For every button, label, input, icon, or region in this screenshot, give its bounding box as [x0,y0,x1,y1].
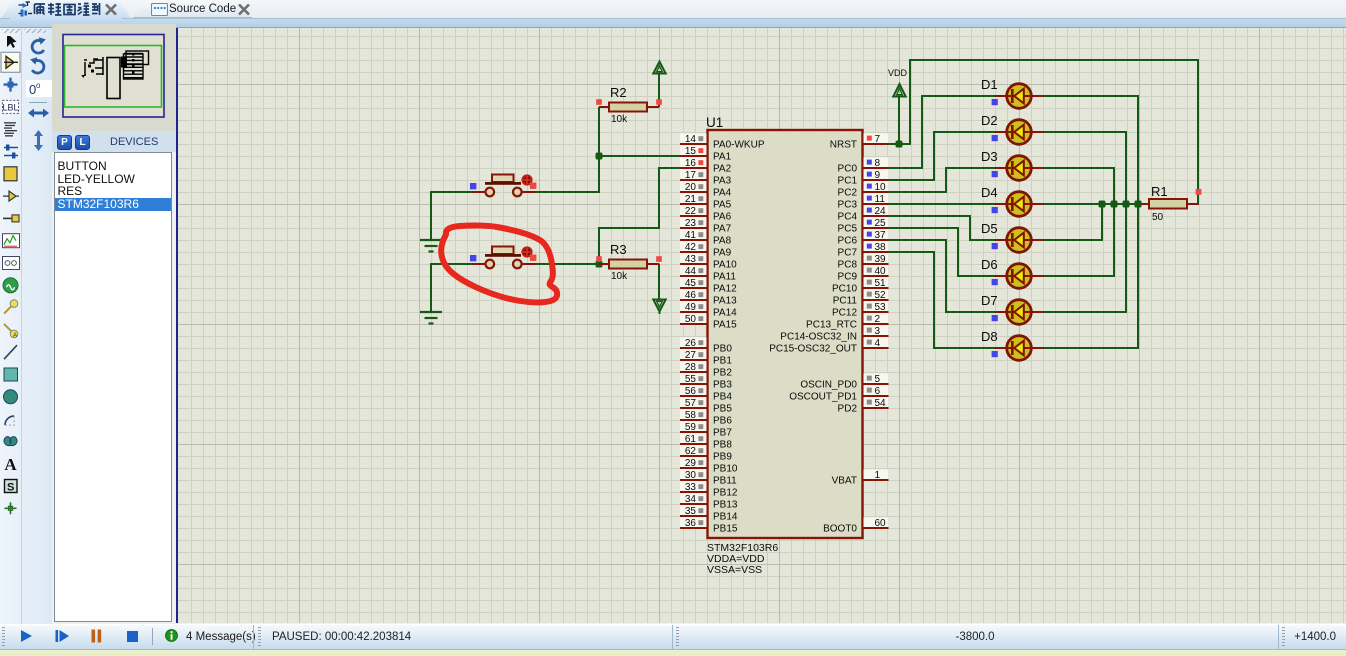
svg-text:PB4: PB4 [713,392,732,403]
svg-text:PC0: PC0 [838,164,858,175]
svg-text:53: 53 [875,302,887,313]
svg-text:PA4: PA4 [713,188,732,199]
svg-text:11: 11 [875,194,886,205]
tab1 close X [104,3,118,16]
svg-text:D4: D4 [981,185,998,200]
pin 21 PA5 [680,193,732,210]
svg-text:58: 58 [685,410,697,421]
tab2 title [169,3,236,15]
LED D5 [981,221,1044,252]
junction D2/D7 column [1123,201,1130,208]
wire NRST pin to VDD junction [886,143,911,145]
minimap chip U1 [107,58,120,99]
svg-text:VBAT: VBAT [832,476,857,487]
svg-text:PB9: PB9 [713,452,732,463]
svg-text:PA11: PA11 [713,272,736,283]
angle edit box [26,80,52,97]
wire R3-right down to ground arrow [658,264,660,300]
tab2 close X [237,3,251,16]
svg-text:PA15: PA15 [713,320,737,331]
svg-text:PA8: PA8 [713,236,732,247]
red marker R1 right [1196,189,1202,195]
pin 42 PA9 [680,241,732,258]
wire PC4 to D5 riser [887,215,971,217]
play button [19,629,33,643]
svg-text:34: 34 [685,494,697,505]
tab schematic capture (active) [0,0,132,18]
svg-text:6: 6 [875,386,881,397]
red hand-drawn annotation circle [441,225,557,302]
svg-text:51: 51 [875,278,887,289]
svg-text:D6: D6 [981,257,998,272]
pin 2 PC13_RTC [806,313,888,330]
svg-text:PB13: PB13 [713,500,738,511]
resistor R3 10k [599,263,609,265]
wire column D5 [1101,204,1103,240]
svg-text:PB10: PB10 [713,464,738,475]
wire ground column down to GND2 [430,263,432,312]
svg-text:OSCOUT_PD1: OSCOUT_PD1 [789,392,857,403]
junction D5 column [1099,201,1106,208]
tool wire label [3,100,19,113]
svg-text:9: 9 [875,170,881,181]
pin 25 PC5 [838,217,889,234]
button contacts [486,260,495,269]
minimap sheet border [63,35,164,118]
svg-text:PD2: PD2 [838,404,858,415]
svg-text:PC1: PC1 [838,176,858,187]
pick device button P [57,135,72,150]
svg-text:14: 14 [685,134,697,145]
wire node to PA1 pin [599,155,681,157]
wire button1-left to ground column [431,191,472,193]
wire PA2 pin to corner [660,167,681,169]
wire D8 right to common column [1043,347,1139,349]
svg-text:U1: U1 [706,115,723,130]
message info icon [165,629,178,642]
svg-text:PB14: PB14 [713,512,738,523]
pin 37 PC6 [838,229,889,246]
wire column D2-D7 [1125,132,1127,312]
tool 2D marker [5,502,17,514]
junction R1 left [1135,201,1142,208]
svg-text:16: 16 [685,158,697,169]
tool 2D arc [5,416,14,425]
svg-text:55: 55 [685,374,697,385]
pin 51 PC10 [832,277,889,294]
svg-text:1: 1 [875,470,881,481]
svg-text:4: 4 [875,338,881,349]
svg-text:PB2: PB2 [713,368,732,379]
pin 50 PA15 [680,313,737,330]
pin 62 PB9 [680,445,732,462]
tool selection arrow [7,33,17,48]
pin 14 PA0-WKUP [680,133,765,150]
svg-text:27: 27 [685,350,697,361]
svg-text:10: 10 [875,182,887,193]
pin 49 PA14 [680,301,737,318]
svg-text:PA3: PA3 [713,176,732,187]
svg-text:PC5: PC5 [838,224,858,235]
pin 23 PA7 [680,217,732,234]
wire PA2 column down [658,167,660,228]
wire PC0 to D1 riser [887,167,923,169]
svg-text:50: 50 [1152,212,1164,223]
button pins [472,263,486,265]
svg-text:38: 38 [875,242,887,253]
pin 26 PB0 [680,337,732,354]
svg-text:PC12: PC12 [832,308,857,319]
pin 34 PB13 [680,493,738,510]
svg-text:PA1: PA1 [713,152,732,163]
tool graph [3,234,20,248]
svg-text:PA0-WKUP: PA0-WKUP [713,140,765,151]
LED D6 [981,257,1044,288]
pin 3 PC14-OSC32_IN [780,325,888,342]
svg-text:PB5: PB5 [713,404,732,415]
pin 15 PA1 [680,145,732,162]
LED D3 [981,149,1044,180]
LED D8 [981,329,1044,360]
minimap left wiring [84,57,103,75]
junction R3/button2/PA2-net [596,261,603,268]
svg-text:7: 7 [875,134,881,145]
svg-text:42: 42 [685,242,697,253]
svg-text:PC13_RTC: PC13_RTC [806,320,857,331]
wire riser to top rail [909,60,911,145]
svg-text:37: 37 [875,230,887,241]
svg-text:8: 8 [875,158,881,169]
svg-text:PA12: PA12 [713,284,737,295]
svg-text:24: 24 [875,206,887,217]
svg-text:PB1: PB1 [713,356,732,367]
pin 1 VBAT [832,469,889,486]
svg-text:PB12: PB12 [713,488,738,499]
bottom desktop strip [0,650,1346,656]
wire R2-left down to button1 row [598,107,600,193]
wire PC3 direct to D4 [887,203,996,205]
tool generator [3,278,18,293]
button contacts [486,188,495,197]
svg-text:PA2: PA2 [713,164,732,175]
wire PC5 to D6 riser [887,227,959,229]
tool 2D circle [4,390,18,404]
wire D2 right [1043,131,1127,133]
svg-text:D3: D3 [981,149,998,164]
svg-text:PA13: PA13 [713,296,737,307]
ground GND2 [420,311,442,313]
minimap LED array [124,51,149,79]
svg-text:VSSA=VSS: VSSA=VSS [707,564,762,576]
tool device pin [3,217,12,219]
svg-text:28: 28 [685,362,697,373]
LED D4 [981,185,1044,216]
svg-text:10k: 10k [611,114,628,125]
wire D3 right [1043,167,1115,169]
wire down to R1 right pin [1197,59,1199,204]
svg-text:49: 49 [685,302,697,313]
svg-text:30: 30 [685,470,697,481]
tool text script [4,122,16,123]
svg-text:BOOT0: BOOT0 [823,524,857,535]
pin 35 PB14 [680,505,738,522]
svg-text:A: A [4,455,17,474]
svg-text:39: 39 [875,254,887,265]
svg-text:59: 59 [685,422,697,433]
tool 2D symbol [5,480,18,493]
pin 7 NRST [830,133,889,150]
pin 5 OSCIN_PD0 [800,373,888,390]
pin 8 PC0 [838,157,889,174]
svg-text:R2: R2 [610,85,627,100]
library button L [75,135,90,150]
wire VDD stub [898,96,900,144]
ground GND1 [420,239,442,241]
svg-text:44: 44 [685,266,697,277]
svg-text:D7: D7 [981,293,998,308]
mirror horizontal icon [28,109,49,118]
svg-text:41: 41 [685,230,697,241]
svg-text:20: 20 [685,182,697,193]
pin 53 PC12 [832,301,889,318]
pin 17 PA3 [680,169,732,186]
wire PC2 to D3 riser [887,191,947,193]
pin 30 PB11 [680,469,737,486]
svg-text:40: 40 [875,266,887,277]
pin 56 PB4 [680,385,732,402]
pin 61 PB8 [680,433,732,450]
grid minor lines [178,28,1346,623]
pin 44 PA11 [680,265,736,282]
svg-text:33: 33 [685,482,697,493]
wire PC1 to D2 riser [887,179,935,181]
svg-text:45: 45 [685,278,697,289]
svg-text:PA5: PA5 [713,200,732,211]
button actuator [492,175,514,183]
wire ground column down to GND1 [430,191,432,240]
wire top rail to R1 column [909,59,1199,61]
pin 57 PB5 [680,397,732,414]
wire button1-right to R2 column [535,191,600,193]
svg-text:PB7: PB7 [713,428,732,439]
ground arrow below R3 [653,300,665,312]
wire D1 right to common column [1043,95,1139,97]
wire R2-right up to power arrow [658,73,660,107]
red state square [530,183,536,189]
svg-text:PC11: PC11 [833,296,858,307]
pin 43 PA10 [680,253,737,270]
red state square [530,255,536,261]
stop button [127,631,138,642]
wire PC6 to D7 riser [887,239,947,241]
svg-text:PC3: PC3 [838,200,858,211]
pin 60 BOOT0 [823,517,888,534]
button click target [521,246,532,257]
tool current probe [4,324,12,332]
svg-text:PA9: PA9 [713,248,732,259]
junction R2/button1/PA1 [596,153,603,160]
svg-text:5: 5 [875,374,881,385]
svg-text:21: 21 [685,194,697,205]
svg-text:2: 2 [875,314,881,325]
resistor R1 50 [1140,203,1149,205]
pin 27 PB1 [680,349,732,366]
mirror vertical icon [34,130,43,151]
power terminal VDD [893,84,905,97]
svg-text:17: 17 [685,170,697,181]
tool tape recorder [3,257,20,270]
blue state square [470,255,476,261]
pin 41 PA8 [680,229,732,246]
svg-text:PB15: PB15 [713,524,738,535]
svg-text:S: S [7,482,14,494]
pin 45 PA12 [680,277,737,294]
tool subcircuit [4,167,17,181]
button actuator [492,247,514,255]
LED D7 [981,293,1044,324]
svg-text:22: 22 [685,206,697,217]
pause button [91,629,102,643]
pin 4 PC15-OSC32_OUT [769,337,888,354]
resistor R2 10k [599,106,609,108]
microcontroller U1 STM32F103R6 body [708,130,863,538]
svg-text:D1: D1 [981,77,998,92]
svg-text:PC15-OSC32_OUT: PC15-OSC32_OUT [769,344,857,355]
wire down to R3 left [598,227,600,264]
pin 36 PB15 [680,517,738,534]
tool 2D box [4,368,18,381]
svg-text:PB11: PB11 [713,476,737,487]
junction D1/D8 column [1135,201,1142,208]
wire common column D1-D8 [1137,96,1139,348]
pin 40 PC9 [838,265,889,282]
button pins [472,191,486,193]
button click target [521,174,532,185]
wire PC7 to D8 riser [887,251,935,253]
svg-text:57: 57 [685,398,697,409]
wire D6 right [1043,275,1115,277]
pin 10 PC2 [838,181,889,198]
svg-text:PC7: PC7 [838,248,858,259]
tool component mode (selected) [1,52,20,72]
wire D7 right [1043,311,1127,313]
junction D3/D6 column [1111,201,1118,208]
tool buses [4,148,18,156]
wire column D3-D6 [1113,168,1115,276]
svg-text:PC8: PC8 [838,260,858,271]
svg-text:R3: R3 [610,242,627,257]
svg-text:OSCIN_PD0: OSCIN_PD0 [800,380,857,391]
svg-text:PA10: PA10 [713,260,737,271]
step button [55,629,69,643]
svg-text:52: 52 [875,290,887,301]
pin 38 PC7 [838,241,889,258]
svg-text:62: 62 [685,446,697,457]
pin 11 PC3 [838,193,889,210]
junction NRST/VDD [896,141,903,148]
svg-text:D2: D2 [981,113,998,128]
svg-text:PC6: PC6 [838,236,858,247]
svg-text:23: 23 [685,218,697,229]
svg-text:PA7: PA7 [713,224,732,235]
svg-text:PC10: PC10 [832,284,857,295]
pin 58 PB6 [680,409,732,426]
svg-text:PA14: PA14 [713,308,737,319]
svg-text:46: 46 [685,290,697,301]
svg-text:26: 26 [685,338,697,349]
grid major lines [178,28,1346,623]
tab1 chinese title 原理图绘制 (simulated glyphs) [33,2,101,16]
wire button2-right to R3 left [535,263,600,265]
tool junction dot [4,78,18,92]
svg-text:VDD: VDD [888,68,908,78]
tool 2D line [4,345,17,359]
svg-text:43: 43 [685,254,697,265]
wire button2-left to ground column [431,263,472,265]
svg-text:54: 54 [875,398,887,409]
LED D1 [981,77,1044,108]
pin 20 PA4 [680,181,732,198]
svg-text:35: 35 [685,506,697,517]
pin 22 PA6 [680,205,732,222]
pin 46 PA13 [680,289,737,306]
svg-text:PC14-OSC32_IN: PC14-OSC32_IN [780,332,857,343]
tab2 icon [151,3,168,16]
svg-text:PC4: PC4 [838,212,858,223]
svg-text:NRST: NRST [830,140,857,151]
svg-text:56: 56 [685,386,697,397]
pin 55 PB3 [680,373,732,390]
svg-text:o: o [36,81,41,90]
svg-text:PB8: PB8 [713,440,732,451]
pin 6 OSCOUT_PD1 [789,385,888,402]
LED D2 [981,113,1044,144]
wire D5 right [1043,239,1103,241]
svg-text:PC9: PC9 [838,272,858,283]
svg-text:PB0: PB0 [713,344,732,355]
svg-text:36: 36 [685,518,697,529]
pin 59 PB7 [680,421,732,438]
pin 33 PB12 [680,481,738,498]
rotate anticlockwise icon [32,60,44,73]
pin 54 PD2 [838,397,889,414]
svg-text:A: A [13,333,17,339]
blue state square [470,183,476,189]
svg-text:PB6: PB6 [713,416,732,427]
svg-text:D5: D5 [981,221,998,236]
tool 2D closed path [4,437,17,446]
pin 24 PC4 [838,205,889,222]
rotate clockwise icon [32,40,44,53]
pin 9 PC1 [838,169,889,186]
svg-text:25: 25 [875,218,887,229]
tab1 icon [16,1,34,17]
minimap green work area [65,46,162,108]
pin 16 PA2 [680,157,732,174]
svg-text:PB3: PB3 [713,380,732,391]
svg-text:3: 3 [875,326,881,337]
power arrow above R2 [653,62,665,74]
svg-text:R1: R1 [1151,184,1168,199]
svg-text:29: 29 [685,458,697,469]
svg-text:LBL: LBL [2,103,18,113]
tool terminal [3,191,16,201]
tool voltage probe [4,306,12,314]
svg-text:50: 50 [685,314,697,325]
tab source code (inactive) [132,0,253,18]
svg-text:PA6: PA6 [713,212,732,223]
wire LED bus row to R1 left [1043,203,1142,205]
